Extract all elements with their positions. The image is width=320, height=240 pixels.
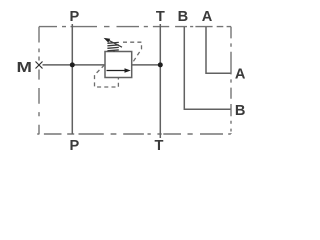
plugged port X symbol at M — [36, 62, 43, 69]
svg-text:A: A — [235, 67, 246, 83]
svg-text:M: M — [16, 59, 31, 76]
top side — [39, 26, 231, 28]
right side — [230, 27, 232, 134]
svg-text:B: B — [178, 9, 189, 25]
relief valve body (square) — [105, 52, 132, 78]
bottom side — [37, 133, 231, 135]
svg-text:T: T — [156, 9, 165, 25]
node: junction outlet/T — [158, 62, 163, 67]
node: junction M/P — [70, 62, 75, 67]
svg-text:A: A — [202, 9, 213, 25]
svg-text:T: T — [155, 138, 164, 154]
wire: P line vertical — [71, 24, 73, 134]
wire: A line (top A to right-edge port A) — [206, 27, 231, 73]
svg-text:B: B — [235, 103, 246, 119]
wire: valve outlet to T line — [132, 64, 161, 66]
svg-text:P: P — [70, 138, 80, 154]
left side — [38, 27, 40, 134]
wire: B line (top B to right-edge port B) — [184, 27, 230, 109]
spring (compressed coil) on valve top — [107, 42, 118, 51]
adjustment arrow through spring — [104, 38, 122, 47]
drain line (dashed) from spring chamber to outlet — [123, 42, 142, 64]
enclosure border (manifold housing, dash-dot) — [37, 27, 231, 134]
wire: M to valve inlet (main line) — [43, 64, 106, 66]
pilot line (dashed) from inlet to valve bottom — [95, 65, 119, 87]
wire: T line vertical — [159, 24, 161, 138]
flow path arrow inside valve — [107, 68, 131, 72]
svg-text:P: P — [70, 9, 80, 25]
